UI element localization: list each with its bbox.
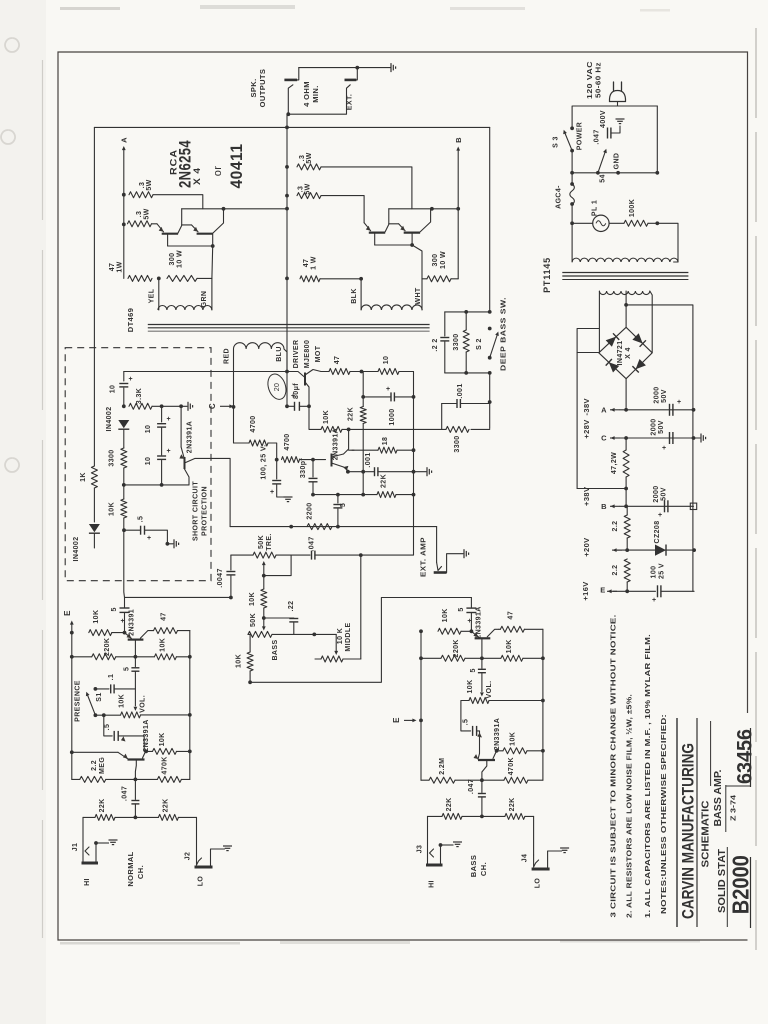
wire ch1 10K to base — [112, 632, 125, 634]
svg-text:2000: 2000 — [651, 418, 658, 435]
svg-text:J1: J1 — [72, 843, 79, 852]
svg-text:.047: .047 — [121, 786, 128, 801]
label J3 — [417, 845, 424, 854]
node E arrow ch2 — [404, 719, 417, 723]
wire ch1 in right — [178, 816, 196, 818]
svg-text:10K: 10K — [119, 694, 126, 708]
svg-text:1. ALL CAPACITORS ARE LISTE: 1. ALL CAPACITORS ARE LISTED IN M.F. , 1… — [643, 634, 652, 918]
wire scp cap to node — [123, 388, 125, 406]
svg-text:1 W: 1 W — [311, 256, 318, 270]
wire rail2 — [413, 372, 415, 495]
svg-text:E: E — [63, 610, 72, 616]
junction ch1 jack1 contact — [94, 841, 98, 845]
ground main — [701, 434, 706, 443]
transistor 2N3391A ch2 second — [474, 751, 497, 780]
svg-text:VOL.: VOL. — [486, 681, 493, 699]
wire primary right lead — [657, 223, 678, 262]
resistor 220K ch2 — [441, 655, 465, 661]
label 80uf — [293, 383, 300, 399]
svg-text:Z 3-74: Z 3-74 — [731, 795, 738, 821]
wire 22k2 row b — [396, 494, 414, 496]
wire r2 to Q1 — [152, 223, 158, 225]
wire ch1 r2a — [72, 656, 92, 658]
junction 100K right — [655, 221, 659, 225]
resistor 2.2M ch2 — [429, 777, 455, 783]
label S4 — [600, 174, 607, 183]
wire 47 to 10 — [350, 371, 378, 373]
svg-text:22K: 22K — [348, 407, 355, 421]
wire deepbass bottom — [445, 372, 490, 374]
junction ch2 base node — [470, 629, 474, 633]
label 2N3391 ch1 — [129, 609, 136, 636]
svg-text:330pf: 330pf — [300, 458, 307, 479]
wire WHT lead — [421, 279, 423, 310]
wire 10K2 down — [249, 671, 251, 682]
label OUTPUTS — [258, 69, 267, 108]
wire center speaker bus — [286, 114, 288, 406]
wire scp top — [124, 371, 287, 373]
svg-text:E: E — [600, 586, 605, 595]
label 10K vol ch1 — [119, 694, 126, 708]
transformer winding RED-BLU driver — [234, 343, 284, 349]
wire s3 down — [571, 151, 573, 183]
resistor 10K ch1 low — [153, 748, 177, 754]
title block rule B — [696, 718, 698, 927]
label 1K — [80, 472, 87, 482]
capacitor 2000 50V B — [658, 500, 668, 519]
label DT469 — [126, 308, 135, 333]
title SOLID STAT — [717, 849, 728, 913]
transistor Q3 output right — [364, 209, 389, 245]
svg-text:AGC4-: AGC4- — [556, 185, 563, 209]
junction ch1 base rail — [70, 750, 74, 754]
svg-text:220K: 220K — [453, 639, 460, 657]
svg-text:1000: 1000 — [389, 408, 396, 425]
wire tre left down — [230, 555, 232, 570]
label C node — [208, 403, 217, 409]
svg-text:22K: 22K — [446, 797, 453, 811]
wire secondary left jog — [577, 329, 599, 489]
junction bus 2200 left — [289, 525, 293, 529]
label 470K ch2 — [508, 757, 515, 775]
wire ch2 coll link — [496, 750, 503, 752]
svg-text:IN4002: IN4002 — [73, 537, 80, 562]
svg-text:100: 100 — [651, 566, 658, 579]
resistor 22K ch2 right — [505, 813, 525, 819]
label 50K TRE — [258, 535, 265, 549]
svg-text:A: A — [120, 137, 129, 143]
wire 47 to BLK node — [320, 278, 361, 280]
capacitor .0047 — [226, 572, 235, 575]
svg-text:.001: .001 — [457, 383, 464, 398]
junction bus 47-1W — [285, 277, 289, 281]
title BASS AMP — [713, 769, 724, 826]
label node A — [601, 405, 607, 414]
svg-text:.0047: .0047 — [217, 568, 224, 588]
label MIN. — [311, 85, 320, 102]
wire ch2 r3a — [421, 779, 429, 781]
title B2000 — [727, 855, 753, 914]
svg-text:54: 54 — [600, 174, 607, 183]
label 22K ch1 right — [162, 798, 169, 812]
capacitor 10uF scp low — [157, 448, 170, 459]
svg-text:DT469: DT469 — [126, 308, 135, 333]
svg-text:J2: J2 — [185, 852, 192, 861]
wire driver collector — [305, 382, 309, 406]
label +28V — [582, 419, 591, 438]
svg-text:5W: 5W — [144, 208, 151, 219]
label DRIVER — [293, 340, 300, 369]
resistor 10K ch1 mid — [154, 654, 176, 660]
wire ch2 .5 down — [481, 673, 483, 692]
label 10 scp low — [145, 457, 152, 466]
label 2000 B — [653, 485, 660, 502]
label 47 left — [109, 263, 116, 272]
resistor .3 5W no3 — [297, 164, 321, 170]
svg-text:4700: 4700 — [284, 433, 291, 450]
svg-text:1K: 1K — [80, 472, 87, 482]
svg-text:RED: RED — [224, 348, 231, 364]
junction ch1 vol rail — [188, 713, 192, 717]
junction base bottom right — [410, 243, 414, 247]
svg-text:.5: .5 — [104, 724, 111, 731]
transistor Q1 output left — [157, 209, 182, 246]
wire bridge left corner link — [577, 352, 599, 354]
resistor 22K ch1 right — [158, 814, 178, 820]
svg-text:2N3391A: 2N3391A — [476, 606, 483, 638]
junction s4 pivot — [596, 171, 600, 175]
junction bus driver wire — [285, 370, 289, 374]
label 2N3391A predriver — [333, 428, 340, 460]
wire bridge bottom to A — [625, 379, 627, 410]
svg-text:GND: GND — [614, 153, 621, 170]
svg-text:80μf: 80μf — [293, 383, 300, 399]
wire 001 gnd stub — [414, 471, 427, 473]
transistor Q4 output right — [399, 209, 431, 245]
label 47 ch1 — [161, 612, 168, 621]
svg-text:.047: .047 — [594, 129, 601, 144]
wire r3 feed down — [321, 167, 412, 209]
wire ch2 cap to q2 base — [477, 731, 482, 754]
resistor 4700 b — [282, 457, 300, 463]
title block rule H underline B2000 — [750, 857, 752, 928]
wire ch2 jack1 lead — [427, 816, 429, 843]
junction 5cap top — [336, 493, 340, 497]
junction A rail r1 — [122, 193, 126, 197]
svg-text:MIDDLE: MIDDLE — [345, 622, 352, 651]
svg-text:120 VAC: 120 VAC — [587, 61, 594, 99]
label X4 — [625, 347, 632, 359]
svg-text:GRN: GRN — [201, 291, 208, 308]
resistor 47 1W left — [128, 275, 152, 281]
label .5 ch1 — [123, 667, 130, 671]
ground 100cap — [284, 497, 293, 502]
capacitor 2000 50V C — [662, 432, 673, 452]
svg-text:+20V: +20V — [582, 537, 591, 556]
svg-text:10K: 10K — [467, 679, 474, 693]
capacitor 10uF scp top — [119, 376, 132, 387]
wire bass left — [248, 633, 250, 635]
label CZ208 — [654, 520, 661, 543]
wire ch1 out to corner — [125, 596, 230, 598]
svg-text:2N3391A: 2N3391A — [494, 718, 501, 750]
label .3 5W no2 — [136, 211, 143, 218]
junction ch2 lrail r1 — [419, 629, 423, 633]
svg-text:SPK.: SPK. — [249, 78, 258, 97]
capacitor 10uF scp mid — [157, 416, 170, 427]
label .047 line — [594, 129, 601, 144]
svg-text:J3: J3 — [417, 845, 424, 854]
svg-text:2.2: 2.2 — [91, 760, 98, 771]
junction ch2 vol rail — [541, 699, 545, 703]
label 4700 b — [284, 433, 291, 450]
label 22K fb — [381, 474, 388, 488]
svg-text:OUTPUTS: OUTPUTS — [258, 69, 267, 108]
wire s1 to .5cap2 — [104, 715, 112, 736]
capacitor 1000uF — [386, 386, 394, 401]
wire ch1 jack1 lead — [82, 817, 84, 841]
wire 47-2W stubs — [625, 438, 627, 450]
wire ch2 vol right — [489, 700, 543, 702]
svg-text:BLK: BLK — [351, 288, 358, 304]
svg-text:10 W: 10 W — [177, 250, 184, 268]
potentiometer wiper TRE — [262, 561, 266, 576]
wire lower bus 527 — [230, 526, 437, 528]
wire to scp gnd — [181, 405, 187, 407]
label .047 ch1 — [121, 786, 128, 801]
label J2 — [185, 852, 192, 861]
label GND — [614, 153, 621, 170]
diode zener CZ208 — [655, 545, 666, 556]
label A — [120, 137, 129, 143]
title block rule E 63456 box left — [726, 785, 750, 787]
svg-text:1W: 1W — [117, 261, 124, 272]
wire scp cap3 down — [161, 460, 163, 485]
junction C rail — [692, 436, 696, 440]
label 10 scp — [110, 385, 117, 394]
potentiometer wiper BASS — [262, 618, 266, 631]
jack J3 HI ch2 — [426, 843, 454, 865]
svg-text:.047: .047 — [309, 536, 316, 551]
transformer PT1145 primary — [572, 258, 678, 262]
wire spk common top — [299, 67, 391, 69]
wire r1 feed down — [153, 195, 203, 209]
junction ch2 lrail r2 — [419, 656, 423, 660]
ground line cap — [616, 119, 625, 124]
capacitor 2000 50V A — [670, 399, 682, 416]
svg-text:+: + — [386, 386, 390, 393]
wire B feed down — [625, 489, 627, 507]
wire rail1 mid — [362, 424, 364, 495]
svg-text:10K: 10K — [159, 638, 166, 652]
svg-text:+: + — [129, 376, 133, 383]
label MIDDLE — [345, 622, 352, 651]
wire ch2 right rail — [542, 629, 544, 780]
svg-text:EXT.: EXT. — [347, 94, 354, 110]
svg-text:PROTECTION: PROTECTION — [202, 486, 209, 536]
label 3300 deepbass — [453, 333, 460, 350]
junction tre bus — [359, 553, 363, 557]
resistor 22K ch1 left — [95, 814, 115, 820]
svg-text:VOL.: VOL. — [139, 695, 146, 713]
label IN4002 sense — [73, 537, 80, 562]
switch S4 GND — [598, 149, 607, 173]
svg-text:C: C — [601, 434, 607, 443]
wire scp bottom row — [124, 484, 189, 486]
ground ext amp — [464, 549, 469, 558]
wire ch2 q2 coll rail — [527, 750, 543, 752]
svg-text:47: 47 — [109, 263, 116, 272]
wire primary left lead — [571, 223, 573, 262]
wire s2 down — [489, 373, 491, 429]
junction 20V rail — [692, 548, 696, 552]
label 50V B — [661, 487, 668, 501]
junction ch1 q2 coll — [144, 750, 148, 754]
label 10 driver — [383, 356, 390, 365]
label J1 — [72, 843, 79, 852]
svg-text:220K: 220K — [104, 638, 111, 656]
svg-text:5: 5 — [458, 607, 465, 611]
resistor 10K ch2 low — [503, 748, 527, 754]
transformer winding YEL-GRN — [158, 306, 212, 310]
wire ch1 r3c — [135, 778, 157, 780]
wire ch2 10K to base — [461, 630, 471, 632]
wire ch2 in mid a — [462, 815, 482, 817]
wire row 20V — [614, 549, 694, 551]
junction mains node — [570, 171, 574, 175]
diode IN4002 scp — [118, 420, 129, 429]
label 22K ch1 left — [99, 798, 106, 812]
wire 1000cap row — [363, 396, 391, 398]
resistor 300 10W left — [167, 275, 197, 281]
label 10K ch1 low — [159, 732, 166, 746]
label 22K ch2 right — [509, 797, 516, 811]
junction mid row — [312, 633, 316, 637]
wire ch1 in left — [83, 816, 95, 818]
wire predriver emitter — [344, 467, 348, 472]
wire tre to cap — [276, 554, 310, 556]
wire ch1 q2 coll rail — [177, 750, 190, 752]
wire ch2 r2a — [421, 657, 441, 659]
capacitor 100 25V psu — [652, 585, 661, 604]
junction deepbass bot b — [488, 371, 492, 375]
svg-text:300: 300 — [432, 254, 439, 267]
label or — [212, 166, 224, 177]
label 3.3K — [136, 388, 143, 404]
jack EXT AMP — [434, 554, 463, 573]
potentiometer 10K VOL ch1 — [121, 712, 141, 718]
label 2.2 a — [612, 521, 619, 532]
svg-text:22K: 22K — [509, 797, 516, 811]
label 220K ch1 — [104, 638, 111, 656]
svg-text:10K: 10K — [108, 502, 115, 516]
svg-text:.22: .22 — [288, 601, 295, 612]
wire ch1 jack2 lead — [196, 817, 198, 853]
wire .22 stub bot — [444, 342, 446, 373]
svg-text:3.3K: 3.3K — [136, 388, 143, 404]
transformer winding BLK-WHT — [361, 305, 422, 310]
wire 300 to B rail — [451, 278, 458, 280]
svg-text:25 V: 25 V — [659, 563, 666, 579]
label 120 VAC — [587, 61, 594, 99]
wire s1 to .1cap — [95, 688, 109, 690]
svg-text:MOT: MOT — [315, 345, 322, 362]
wire scp tr emitter — [180, 406, 182, 447]
wire 001 box top — [442, 403, 457, 405]
label 5 driver — [340, 503, 347, 507]
label .5 ch2 — [470, 668, 477, 672]
label .22 — [432, 338, 439, 351]
diode bridge bottom-right — [632, 359, 646, 373]
junction deepbass top a — [464, 310, 468, 314]
wire 100cap stub — [276, 460, 278, 479]
wire ch1 out top — [124, 597, 126, 607]
wire BLU lead — [284, 349, 287, 372]
wire secondary center tap — [625, 291, 627, 327]
svg-text:2N3391A: 2N3391A — [333, 428, 340, 460]
wire bassL down — [249, 634, 251, 652]
note 2 resistors — [625, 694, 634, 918]
svg-text:47: 47 — [303, 259, 310, 268]
wire ch2 47 to rail — [524, 628, 543, 630]
wire 100K to right — [648, 222, 657, 224]
wire 80uf link a — [287, 405, 295, 407]
hole punch marks — [1, 38, 19, 472]
wire ch1 in mid b — [135, 816, 158, 818]
svg-text:400V: 400V — [600, 110, 607, 128]
label 22K rail1 — [348, 407, 355, 421]
ground scp — [188, 402, 193, 411]
wire mains left — [571, 106, 573, 128]
svg-text:50V: 50V — [661, 487, 668, 501]
svg-text:10K: 10K — [93, 610, 100, 624]
resistor 470K ch2 — [504, 777, 528, 783]
note 1 capacitors — [643, 634, 652, 918]
svg-text:X 4: X 4 — [192, 167, 202, 185]
svg-text:10 W: 10 W — [440, 251, 447, 269]
junction ch1 base node — [123, 631, 127, 635]
label 10 W left — [177, 250, 184, 268]
wire ch2 r2d — [523, 657, 543, 659]
svg-text:IN4002: IN4002 — [106, 407, 113, 432]
wire scp 10K to bus — [123, 485, 125, 499]
label 10 scp mid — [145, 425, 152, 434]
resistor 100K — [624, 220, 648, 226]
wire ch2 in mid b — [482, 815, 505, 817]
svg-text:CH.: CH. — [479, 862, 488, 876]
svg-text:+28V: +28V — [582, 419, 591, 438]
wire secondary left lead — [598, 291, 600, 353]
junction rail2 18 — [412, 448, 416, 452]
svg-text:S1: S1 — [96, 692, 103, 701]
wire 2.2b bot — [626, 582, 628, 591]
wire pl1 right lead — [609, 222, 624, 224]
label J4 — [522, 854, 529, 863]
svg-text:2000: 2000 — [653, 485, 660, 502]
label .22 tone — [288, 601, 295, 612]
label GRN — [201, 291, 208, 308]
diode bridge top-right — [632, 333, 646, 347]
wire 300 to GRN node — [197, 277, 212, 279]
wire predriver collector to 18 — [349, 449, 354, 451]
svg-text:+16V: +16V — [581, 581, 590, 600]
wire pl1 left lead — [572, 222, 593, 224]
label 2200 — [307, 502, 314, 519]
resistor .3 5W no4 — [297, 193, 321, 199]
wire ch2 in left — [428, 815, 443, 817]
transformer PT1145 secondary — [599, 291, 649, 295]
svg-text:S 3: S 3 — [553, 136, 560, 148]
